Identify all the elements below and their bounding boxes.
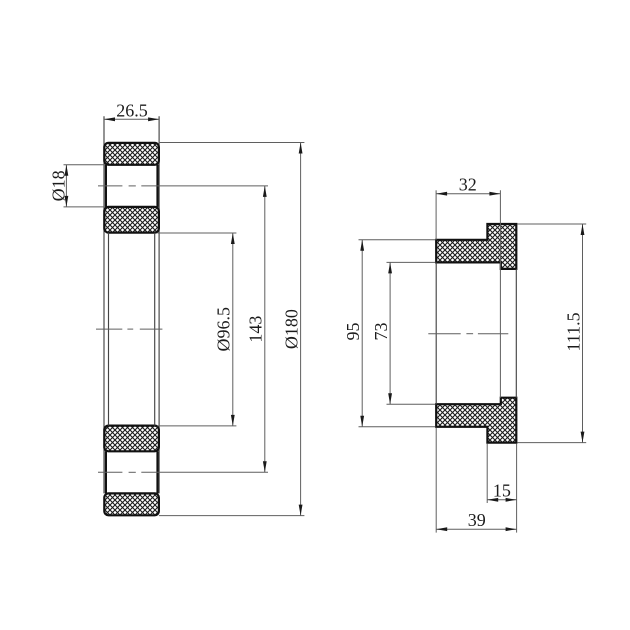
dimension 32 line: [436, 193, 500, 195]
dimension 95 extension lines: [359, 239, 436, 241]
dimension Ø18 extension lines: [64, 164, 105, 166]
svg-text:15: 15: [493, 481, 511, 501]
left view: bolt hole 1 wall left: [105, 165, 107, 207]
dimension Ø96.5 line: [232, 233, 234, 426]
dimension Ø180 extension lines: [159, 142, 305, 144]
dimension Ø180 arrows: [299, 143, 303, 154]
dimension 32 extension lines: [435, 190, 437, 240]
dimension Ø96.5 arrows: [231, 233, 235, 244]
left view: bolt hole 2 centerline: [98, 471, 268, 473]
left view: bolt hole 1 centerline: [98, 185, 268, 187]
dimension 15 line: [487, 499, 516, 501]
svg-text:Ø180: Ø180: [281, 309, 301, 349]
dimension Ø96.5 extension lines: [157, 232, 236, 234]
dimension 39 extension line: [435, 428, 437, 533]
dimension 73 line: [389, 262, 391, 404]
svg-text:143: 143: [246, 316, 266, 343]
left view: inner hatched block lower: [104, 426, 159, 452]
dimension 73 extension lines: [387, 261, 436, 263]
dimension 39 arrows: [436, 527, 447, 531]
dimension 111.5 extension lines: [517, 223, 586, 225]
svg-text:Ø18: Ø18: [49, 170, 69, 201]
dimension Ø180 line: [300, 143, 302, 516]
right view: main centerline: [428, 333, 508, 335]
dimension 39 line: [436, 528, 516, 530]
dimension 111.5 line: [582, 224, 584, 443]
dimension 143 arrows: [263, 186, 267, 197]
left view: bolt hole 2 wall left: [105, 451, 107, 493]
dimension 26.5 line: [104, 118, 159, 120]
left view: flange ring section, outer hatched block top: [104, 143, 159, 165]
right view: bushing section upper hatched region: [436, 224, 516, 269]
dimension 95 arrows: [360, 240, 364, 251]
dimension Ø18 arrows: [65, 165, 69, 176]
dimension 73 arrows: [388, 262, 392, 273]
left view: inner hatched block upper: [104, 207, 159, 233]
dimension 15 extension lines: [486, 444, 488, 503]
dimension 95 line: [361, 240, 363, 427]
left view: bore chamfer line right: [154, 233, 156, 426]
dimension 15 arrows: [487, 498, 498, 502]
left view: left face line full height: [103, 116, 105, 493]
dimension 143 line: [264, 186, 266, 472]
svg-text:73: 73: [371, 323, 391, 341]
left view: main centerline: [96, 328, 162, 330]
svg-text:95: 95: [343, 323, 363, 341]
right view: right face line across bore: [515, 269, 517, 398]
right view: left face line across bore: [435, 262, 437, 404]
dimension 26.5 arrows: [104, 117, 115, 121]
left view: bolt hole 1 wall right: [156, 165, 158, 207]
dimension 111.5 arrows: [581, 224, 585, 235]
dimension 32 arrows: [436, 192, 447, 196]
left view: right face line full height: [158, 116, 160, 493]
left view: bolt hole 2 wall right: [156, 451, 158, 493]
svg-text:26.5: 26.5: [116, 100, 148, 120]
svg-text:111.5: 111.5: [563, 312, 583, 351]
left view: outer hatched block bottom: [104, 493, 159, 515]
svg-text:32: 32: [459, 175, 477, 195]
svg-text:39: 39: [468, 510, 486, 530]
left view: bore chamfer line left: [108, 233, 110, 426]
right view: bushing section lower hatched region: [436, 398, 516, 443]
svg-text:Ø96.5: Ø96.5: [214, 307, 234, 352]
dimension Ø18 line: [65, 165, 67, 207]
